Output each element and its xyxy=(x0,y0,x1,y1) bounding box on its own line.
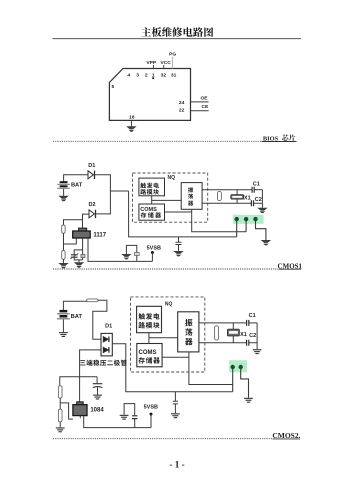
svg-text:X1: X1 xyxy=(240,332,247,338)
svg-text:C1: C1 xyxy=(253,181,260,187)
resistor R1 (CMOS1 left) xyxy=(62,225,65,233)
svg-text:22: 22 xyxy=(179,108,185,114)
ground at pin 16 xyxy=(126,126,136,131)
wire D1 output down to rail xyxy=(112,344,232,392)
capacitor C2 plates (CMOS1) xyxy=(251,200,253,206)
svg-text:2: 2 xyxy=(145,72,148,78)
wire trigger to COMS xyxy=(151,196,153,204)
pin 16 ground stem xyxy=(130,120,132,126)
resistor R2 (CMOS1 left) xyxy=(62,251,65,260)
oscillator top rail to C1 xyxy=(202,189,252,191)
ground on bracket (CMOS2) xyxy=(120,415,129,420)
svg-text:BAT: BAT xyxy=(71,314,83,320)
wire 1117 mid pin down xyxy=(82,238,84,254)
svg-text:NQ: NQ xyxy=(168,175,176,181)
battery ground stem (CMOS1) xyxy=(63,189,65,196)
title underline xyxy=(53,38,302,40)
crystal X1 body (CMOS1) xyxy=(231,195,244,199)
node dot 2 (CMOS2) xyxy=(239,365,243,369)
wire D1b anode left and down to 1084 xyxy=(80,350,101,402)
COMS memory box (CMOS2) xyxy=(137,344,162,367)
wire dot1 down (CMOS2) xyxy=(232,367,234,392)
capacitor C2 plates (CMOS2) xyxy=(247,340,249,346)
wire trigger to COMS (CMOS2) xyxy=(148,333,150,344)
ground right of C1/C2 (CMOS1) xyxy=(257,208,267,213)
BIOS section dashed separator xyxy=(53,140,261,142)
wire battery to D1 xyxy=(64,175,88,182)
trigger module box 触发电路模块 (CMOS2) xyxy=(137,306,162,332)
ground under rail capacitor (CMOS2) xyxy=(171,413,180,418)
capacitor near 5VSB (CMOS1 right) xyxy=(176,237,182,251)
svg-text:COMS: COMS xyxy=(139,350,157,356)
wire COMS to osc-bottom node xyxy=(165,211,192,213)
trigger module box 触发电路模块 (CMOS1) xyxy=(139,178,165,196)
wire branch to 1084 adj xyxy=(60,403,73,419)
resistor R4 horizontal (CMOS2) xyxy=(87,299,98,302)
ground right of C1/C2 (CMOS2) xyxy=(253,349,262,354)
polarized capacitor plates (CMOS1 1117 output) xyxy=(71,254,78,256)
ground from dot3 (CMOS1) xyxy=(261,240,271,245)
svg-text:VCC: VCC xyxy=(160,60,171,66)
wire C2 to corner and ground xyxy=(254,190,263,208)
bracket wire ground/cap (CMOS2) xyxy=(124,404,135,416)
svg-text:24: 24 xyxy=(179,100,185,106)
5VSB terminal dot (CMOS2) xyxy=(150,413,153,416)
wire resistor chain tap xyxy=(64,220,83,225)
regulator 1084 tab xyxy=(77,402,83,405)
node dot 1 (CMOS2) xyxy=(231,365,235,369)
svg-text:C1: C1 xyxy=(249,313,256,319)
wire oscillator bottom out of NQ xyxy=(192,209,246,232)
wire R1 to R2 xyxy=(63,233,65,250)
bracket capacitor plates (CMOS2) xyxy=(132,416,138,419)
NQ module dashed box (CMOS2) xyxy=(131,297,205,372)
wire 1084 right pin to bottom rail xyxy=(84,416,151,428)
oscillator bottom rail to C2 xyxy=(202,202,251,204)
CMOS1 dashed separator xyxy=(53,268,278,270)
svg-text:5: 5 xyxy=(112,84,115,90)
wire C2 to corner and ground (CMOS2) xyxy=(249,323,257,349)
wire R5 to R6 xyxy=(59,398,61,409)
wire R2 to ground xyxy=(63,259,65,263)
diode D1 xyxy=(88,171,93,179)
oscillator box 振荡器 (CMOS2) xyxy=(178,312,199,352)
svg-text:- 1 -: - 1 - xyxy=(169,460,184,470)
ground under R2 (CMOS1) xyxy=(58,263,68,268)
svg-text:1117: 1117 xyxy=(93,233,106,239)
resistor R6 (CMOS2 left) xyxy=(58,409,62,422)
VCC label and pin tick xyxy=(160,60,171,69)
green highlight pad (CMOS1) xyxy=(233,215,264,224)
svg-text:C2: C2 xyxy=(249,333,256,339)
ground from dot2 (CMOS2) xyxy=(244,398,253,403)
battery BAT (CMOS2) xyxy=(57,310,70,320)
wire bracket cap to rail xyxy=(134,419,136,428)
pin 22 CE wire xyxy=(191,110,209,112)
CMOS1 label underline xyxy=(279,268,302,270)
wire dot2 to ground (CMOS2) xyxy=(241,367,249,398)
wire battery to resistor xyxy=(63,301,86,310)
battery BAT (CMOS1) xyxy=(57,181,70,189)
wire trigger/COMS node to oscillator xyxy=(152,199,182,201)
svg-text:C2: C2 xyxy=(255,197,262,203)
loop bottom wire xyxy=(74,257,82,260)
svg-text:BAT: BAT xyxy=(71,183,83,189)
oscillator box 振荡器 (CMOS1) xyxy=(181,183,202,210)
svg-text:CE: CE xyxy=(202,104,210,110)
BIOS chip U1 outline xyxy=(109,69,190,121)
battery ground stem (CMOS2) xyxy=(62,319,64,332)
title 主板维修电路图 xyxy=(141,27,213,37)
regulator 1084 body xyxy=(73,405,87,416)
PG label and pin line xyxy=(169,52,176,69)
wire rail to mid capacitor xyxy=(96,377,98,384)
wire trigger/COMS node to oscillator (CMOS2) xyxy=(149,337,178,339)
svg-text:5VSB: 5VSB xyxy=(147,245,161,251)
wire D1 cathode to junction xyxy=(95,175,129,191)
wire resistor to D1 input (zigzag) xyxy=(93,300,107,339)
wire oscillator bottom out of NQ (CMOS2) xyxy=(189,352,233,385)
wire filter box to rail xyxy=(136,256,138,262)
dual diode D1 box (CMOS2) xyxy=(101,333,112,356)
regulator 1117 tab xyxy=(79,228,87,231)
pin 1 index dot xyxy=(152,77,154,79)
resistor R3 between rails (CMOS1) xyxy=(218,191,222,200)
wire C1 to corner (CMOS2) xyxy=(249,322,257,324)
svg-text:NQ: NQ xyxy=(165,301,173,307)
left rail (CMOS2) xyxy=(60,377,97,386)
pin numbers top: 4 3 2 1 32 31 xyxy=(127,72,176,78)
svg-text:3: 3 xyxy=(136,72,139,78)
diode D2 xyxy=(89,210,94,218)
capacitor on rail (CMOS2 mid) xyxy=(173,392,178,414)
wire 5VSB dot to rail (CMOS2) xyxy=(150,414,152,428)
regulator 1117 body xyxy=(73,231,91,238)
COMS memory box (CMOS1) xyxy=(139,204,165,220)
wire 5VSB dot to rail xyxy=(151,253,153,262)
wire dot1 down xyxy=(236,219,238,237)
capacitor mid (CMOS2) plates xyxy=(93,383,103,385)
ground under battery (CMOS2) xyxy=(59,332,68,337)
BIOS label underline xyxy=(262,141,297,143)
NQ module dashed box (CMOS1) xyxy=(133,173,208,222)
svg-text:D1: D1 xyxy=(105,324,112,330)
pin 24 OE wire xyxy=(191,101,209,103)
crystal X1 body (CMOS2) xyxy=(228,329,240,336)
ground under R6 (CMOS2) xyxy=(56,427,65,432)
wire D2 cathode up to junction xyxy=(96,191,111,214)
CMOS2 dashed separator xyxy=(53,438,272,440)
wire dot2 down xyxy=(245,219,247,232)
ground under mid cap (CMOS2) xyxy=(93,395,102,400)
node dot 3 (CMOS1) xyxy=(253,217,257,221)
wire 1117 right pin to 5VSB rail xyxy=(88,238,152,261)
loop branch to capacitor xyxy=(74,250,82,255)
svg-text:1084: 1084 xyxy=(90,408,104,414)
diode D1a xyxy=(103,337,108,342)
oscillator bottom rail to C2 (CMOS2) xyxy=(199,342,247,344)
svg-text:4: 4 xyxy=(127,72,130,78)
bracket wire hollow-ground / filter xyxy=(126,245,136,254)
svg-text:31: 31 xyxy=(171,72,177,78)
ground under capacitor (CMOS1 right) xyxy=(173,251,183,256)
三端稳压二极管 label xyxy=(80,360,127,366)
filter box on mid pin xyxy=(81,254,85,257)
wire branch to 1117 adj pin xyxy=(64,238,77,244)
wire COMS to osc-bottom (CMOS2) xyxy=(162,356,189,358)
svg-text:D2: D2 xyxy=(88,202,95,208)
oscillator top rail to C1 (CMOS2) xyxy=(199,322,247,324)
5VSB terminal dot (CMOS1) xyxy=(151,251,154,254)
green highlight pad (CMOS2) xyxy=(229,360,247,372)
wire dot3 to ground xyxy=(256,219,266,240)
svg-text:16: 16 xyxy=(129,114,135,120)
wire mid cap to ground xyxy=(97,387,99,394)
small filter box on bracket xyxy=(134,253,139,256)
BIOS 芯片 section label xyxy=(263,134,296,142)
svg-text:5VSB: 5VSB xyxy=(144,405,158,411)
crystal X1 stubs (CMOS1) xyxy=(236,190,238,204)
node dot 2 (CMOS1) xyxy=(244,217,248,221)
1084 center stub xyxy=(79,416,81,419)
resistor R7 between rails (CMOS2) xyxy=(215,326,219,340)
crystal X1 stubs (CMOS2) xyxy=(232,323,234,343)
wire loop to ground xyxy=(78,260,80,262)
wire D1/D2 node down to bottom rail xyxy=(129,191,237,237)
diode D1b xyxy=(103,347,108,352)
node dot 1 (CMOS1) xyxy=(235,217,239,221)
svg-text:OE: OE xyxy=(200,95,208,101)
ground under cap (CMOS1) xyxy=(74,262,84,267)
wire R6 to ground xyxy=(59,422,61,428)
svg-text:X1: X1 xyxy=(244,195,251,201)
VPP label and pin tick xyxy=(146,60,157,69)
capacitor C1 plates (CMOS1) xyxy=(252,187,254,193)
svg-text:32: 32 xyxy=(161,72,167,78)
resistor R5 (CMOS2 left) xyxy=(58,386,62,398)
svg-text:COMS: COMS xyxy=(140,207,157,213)
wire C1 to corner xyxy=(254,189,262,191)
ground on bracket (CMOS1) xyxy=(121,254,131,259)
svg-text:D1: D1 xyxy=(88,163,95,169)
CMOS2 label underline xyxy=(273,438,301,440)
wire D2 anode to 1117 output xyxy=(83,214,89,228)
ground under battery (CMOS1) xyxy=(58,196,68,201)
capacitor C1 plates (CMOS2) xyxy=(247,320,249,326)
svg-text:VPP: VPP xyxy=(146,60,157,66)
